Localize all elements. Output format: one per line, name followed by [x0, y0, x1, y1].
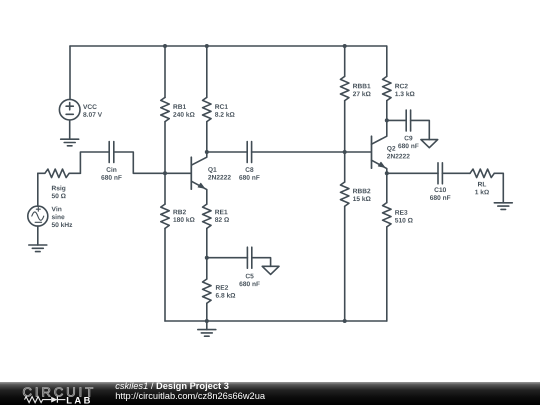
wire RC1 bottom to collector node [206, 122, 208, 152]
resistor RE2 [203, 279, 236, 303]
wire RBB2 bottom to rail [344, 206, 346, 321]
node RC1 top [205, 44, 209, 48]
ground below RL [494, 203, 512, 210]
node RBB1 top [343, 44, 347, 48]
capacitor C9 [398, 110, 418, 148]
wire Vin to ground [37, 226, 39, 245]
voltage source VCC [59, 99, 102, 120]
wire VCC drop [69, 46, 71, 99]
node Q1 collector / C8 [205, 150, 209, 154]
wire output to C10 [387, 172, 438, 174]
wire VCC to ground [69, 120, 71, 139]
wire RBB2 top lead [344, 152, 346, 182]
wire Vin up to Rsig [37, 173, 39, 206]
wire RC2 top lead [386, 46, 388, 76]
wire base Q2 [345, 151, 371, 153]
transistor Q2 2N2222 [372, 120, 410, 173]
resistor RE3 [383, 203, 413, 227]
wire RB1 bottom to junction [164, 122, 166, 174]
footer text [115, 382, 265, 401]
capacitor Cin [101, 142, 121, 180]
capacitor C5 [239, 247, 259, 286]
resistor RB2 [161, 204, 195, 228]
ground sgnd C9 [421, 140, 438, 148]
wire RE3 bottom to rail [386, 227, 388, 321]
resistor RB1 [161, 97, 195, 121]
resistor RL [470, 169, 494, 194]
wire RE3 top lead [386, 173, 388, 202]
wire RC1 top lead [206, 46, 208, 97]
resistor Rsig [38, 169, 81, 198]
capacitor C8 [239, 142, 259, 180]
wire RBB1 top lead [344, 46, 346, 76]
svg-text:LAB: LAB [66, 394, 92, 405]
resistor RBB1 [340, 76, 370, 100]
wire RE1 bottom to node [206, 228, 208, 257]
wire RE2 top lead [206, 258, 208, 279]
ground bottom [198, 330, 216, 337]
resistor RC2 [383, 76, 415, 100]
resistor RE1 [203, 204, 229, 228]
resistor RC1 [203, 97, 235, 121]
node RB1 top [163, 44, 167, 48]
node Q2 collector / C9 [385, 118, 389, 122]
wire C10 to RL [442, 172, 470, 174]
wire node to C9 [387, 119, 406, 121]
wire bottom rail [165, 320, 387, 322]
node bottom RBB2 [343, 319, 347, 323]
node base Q1 / RB junction [163, 171, 167, 175]
wire RC2 bottom to node [386, 101, 388, 121]
footer bar [0, 382, 540, 405]
wire C5 to sgnd [252, 258, 271, 267]
wire node to C5 [207, 257, 248, 259]
voltage source Vin sine [28, 206, 72, 227]
node RBB junction / Q2 base [343, 150, 347, 154]
wire RB2 top lead [164, 173, 166, 204]
capacitor C10 [430, 163, 450, 200]
CircuitLab logo [0, 382, 110, 405]
wire RB2 bottom to rail [164, 228, 166, 321]
wire Cin to Q1 base [114, 152, 191, 173]
node Q2 emitter / output [385, 171, 389, 175]
wire RE2 bottom to rail [206, 303, 208, 321]
transistor Q1 2N2222 [191, 152, 231, 204]
ground below VCC [61, 139, 79, 146]
wire rail to ground [206, 321, 208, 330]
wire RB1 top lead [164, 46, 166, 97]
wire top rail [70, 45, 387, 47]
ground below Vin [29, 245, 47, 252]
wire C8 node to cap [207, 151, 247, 153]
wire RBB1 bottom to junction [344, 101, 346, 152]
node RE1/RE2/C5 [205, 256, 209, 260]
resistor RBB2 [340, 182, 370, 206]
ground sgnd C5 [262, 266, 279, 274]
wire RL to ground [494, 173, 503, 203]
node bottom RE2 [205, 319, 209, 323]
wire Rsig up to Cin [80, 152, 109, 173]
wire C9 to sgnd [411, 120, 430, 139]
wire C8 to RBB junction [252, 151, 345, 153]
